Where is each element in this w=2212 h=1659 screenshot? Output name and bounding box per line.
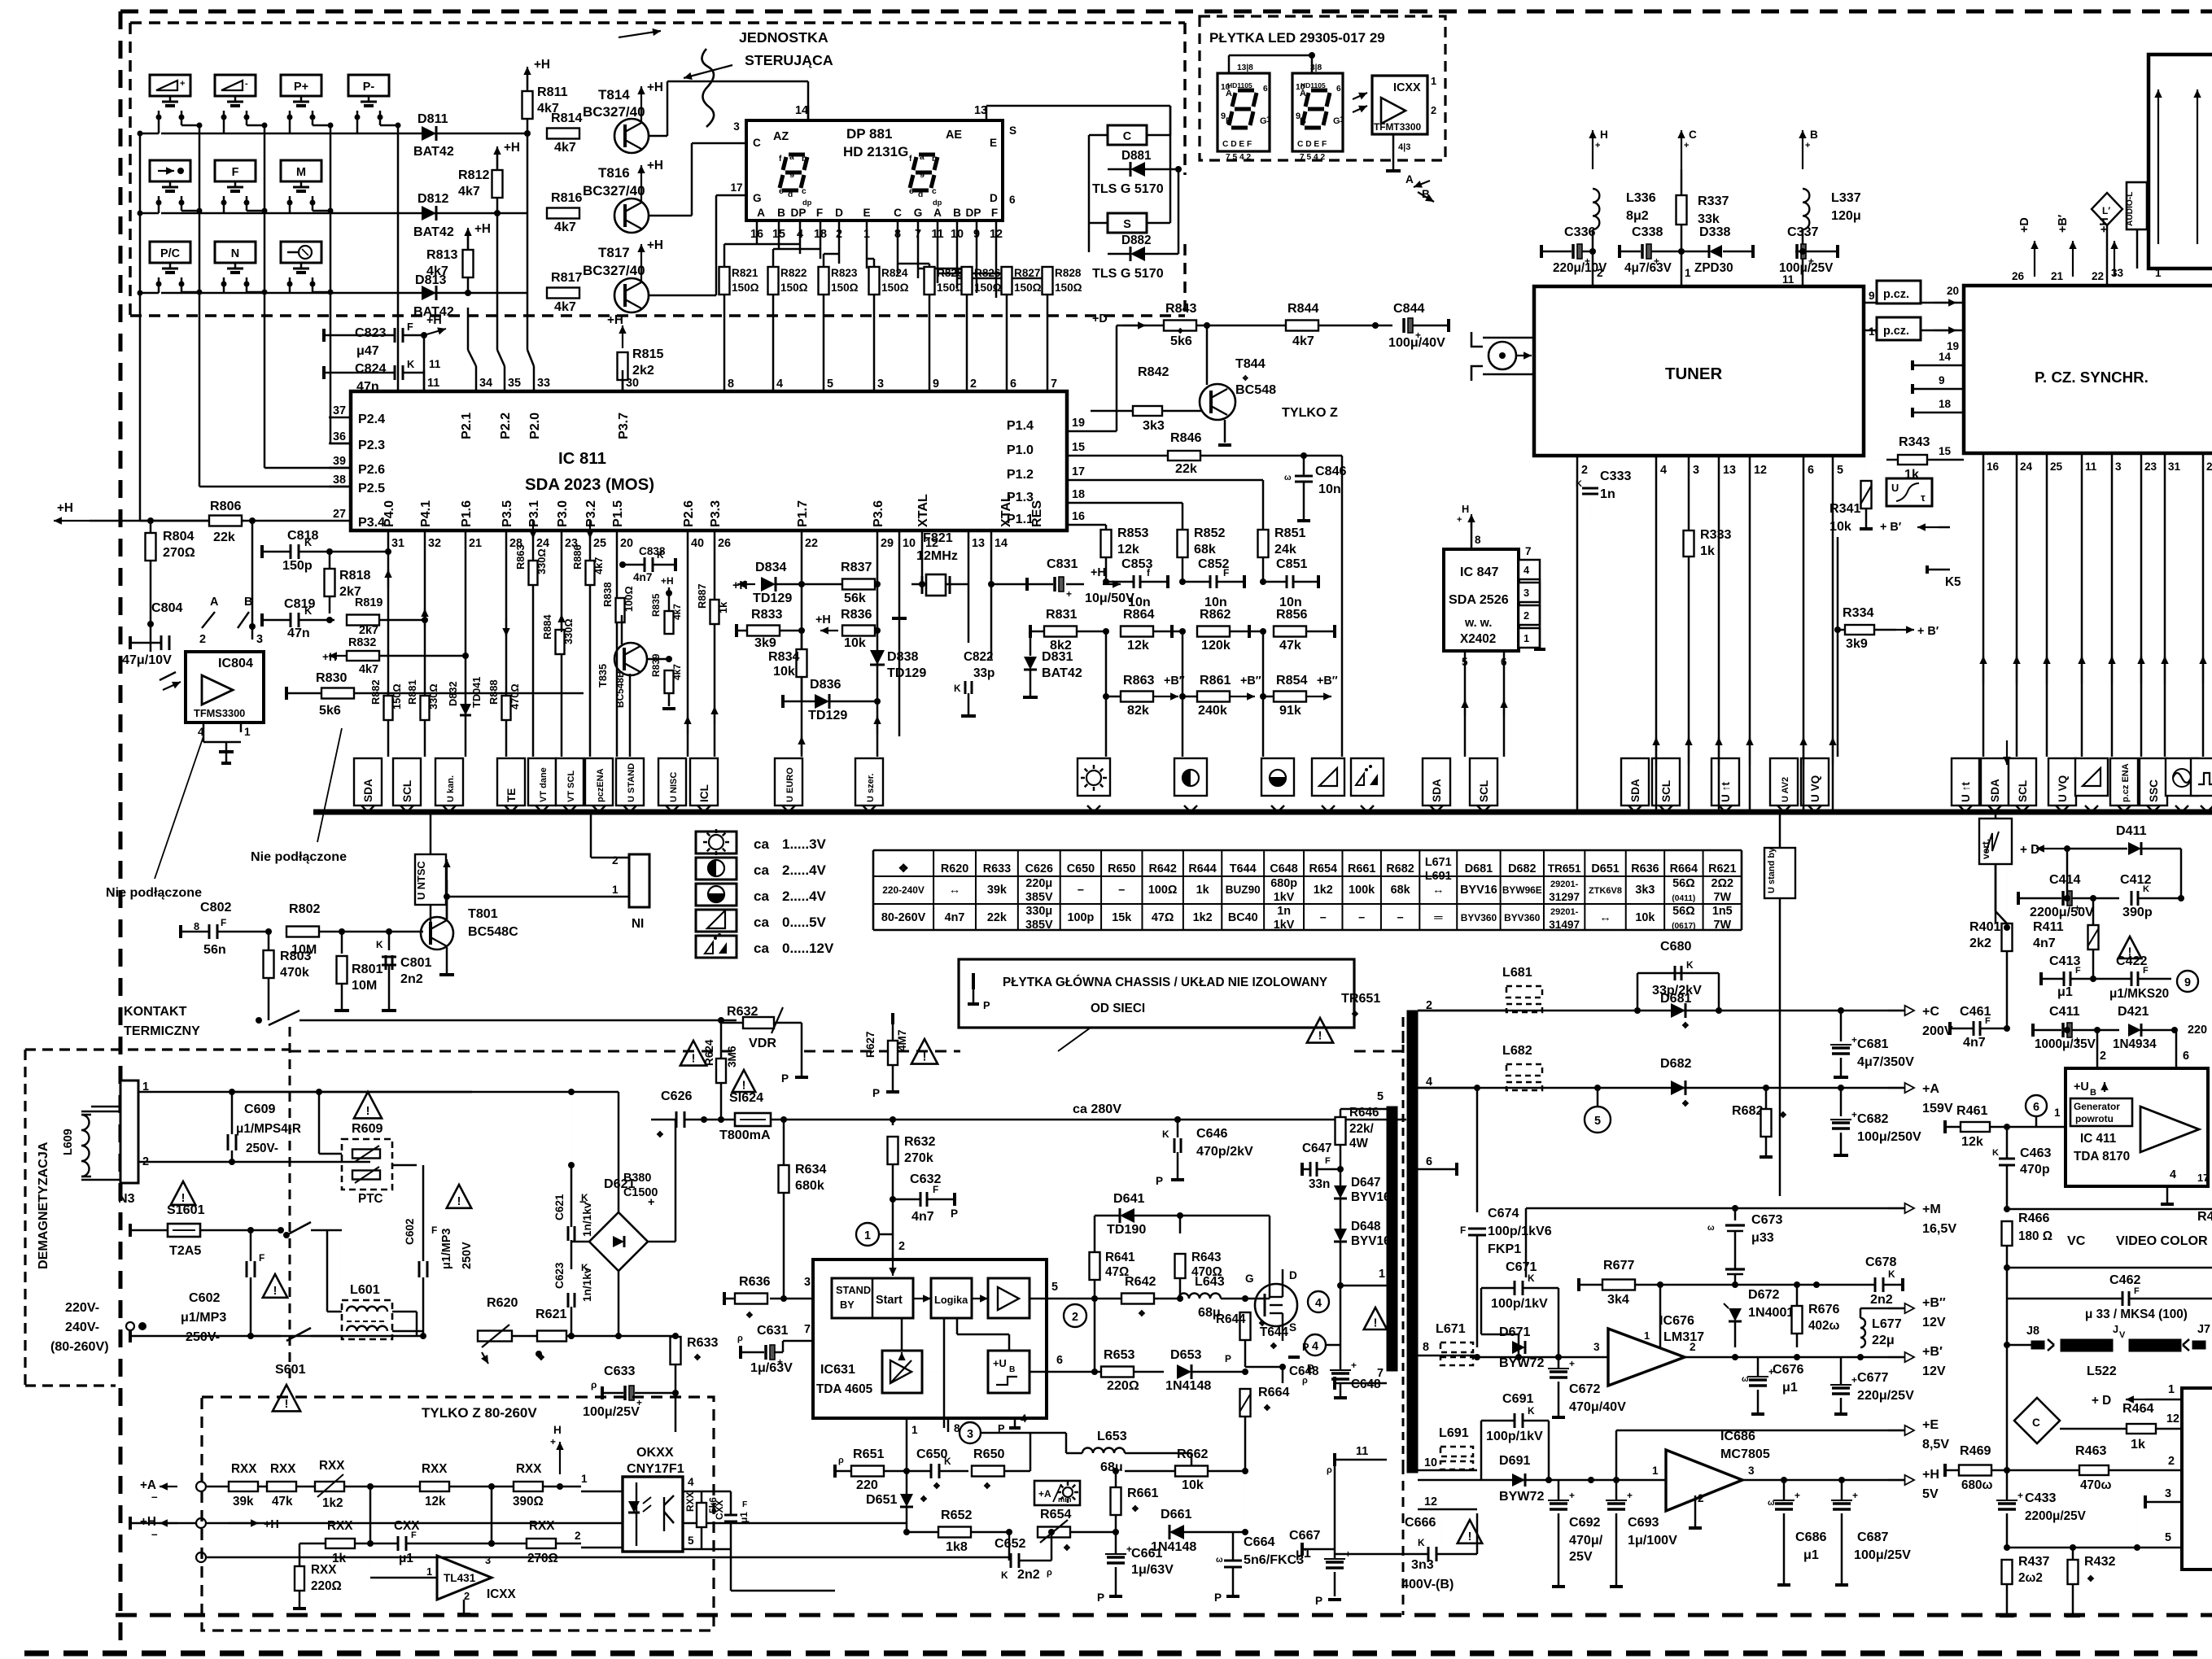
resistor R828 150R	[1043, 267, 1053, 295]
svg-text:8,5V: 8,5V	[1922, 1437, 1949, 1452]
switch under M	[300, 181, 303, 187]
svg-text:R854: R854	[1276, 673, 1308, 688]
TL431 wires	[370, 1577, 437, 1579]
wire left rail to pin27	[139, 293, 142, 521]
svg-text:150Ω: 150Ω	[974, 282, 1002, 294]
resistor R621	[537, 1331, 566, 1342]
svg-text:Generator: Generator	[2074, 1101, 2120, 1112]
svg-text:AZ: AZ	[773, 130, 789, 143]
svg-text:220μ: 220μ	[1025, 877, 1052, 890]
svg-text:470p: 470p	[2020, 1162, 2050, 1177]
ic IC847 box	[1444, 549, 1519, 651]
+H arrow R812	[496, 146, 498, 167]
svg-text:K: K	[2143, 884, 2149, 894]
svg-text:μ1/MKS20: μ1/MKS20	[2109, 987, 2169, 1001]
svg-text:R819: R819	[355, 596, 383, 609]
svg-text:μ1: μ1	[2057, 984, 2073, 999]
svg-text:ca: ca	[754, 836, 769, 852]
svg-text:33p: 33p	[973, 666, 995, 680]
main 280V rail	[780, 1116, 787, 1123]
svg-text:C: C	[894, 207, 902, 219]
pcz synchr box	[1964, 286, 2212, 453]
ic IC811 SDA2023 box	[351, 391, 1067, 530]
svg-text:21: 21	[2051, 270, 2064, 282]
svg-text:F821: F821	[923, 530, 953, 545]
svg-text:10: 10	[1424, 1456, 1437, 1469]
svg-text:15k: 15k	[1112, 911, 1132, 924]
svg-text:+H: +H	[264, 1518, 279, 1531]
resistor R863	[1121, 692, 1153, 702]
resistor R803	[268, 932, 270, 950]
svg-text:R661: R661	[1348, 862, 1375, 875]
svg-text:1kV: 1kV	[1274, 919, 1295, 932]
svg-text:36: 36	[333, 430, 346, 443]
svg-text:(0617): (0617)	[1672, 922, 1695, 931]
svg-text:R814: R814	[551, 111, 583, 125]
svg-text:38: 38	[333, 474, 346, 487]
svg-text:2Ω2: 2Ω2	[1711, 877, 1734, 890]
svg-text:R832: R832	[348, 636, 376, 649]
svg-text:+M: +M	[1922, 1202, 1941, 1216]
demagnetyzacja dashed box	[25, 1048, 290, 1050]
wires drop to bus right	[2006, 456, 2008, 460]
tag p.cz ENA at 2610	[2110, 758, 2138, 805]
svg-text:10k: 10k	[1635, 911, 1655, 924]
svg-text:f: f	[909, 155, 912, 164]
jednostka sterujaca dashed box	[130, 21, 1185, 24]
svg-text:K: K	[1001, 1570, 1008, 1581]
svg-text:BYW72: BYW72	[1499, 1356, 1544, 1370]
transformer winding bar right	[1407, 1011, 1418, 1473]
svg-text:BY: BY	[840, 1299, 855, 1311]
svg-text:100Ω: 100Ω	[1148, 884, 1178, 897]
svg-text:1.....3V: 1.....3V	[782, 836, 827, 852]
svg-text:C846: C846	[1315, 464, 1347, 478]
svg-text:BC40: BC40	[1228, 911, 1258, 924]
svg-text:39: 39	[333, 455, 346, 468]
svg-text:+: +	[1569, 1490, 1575, 1501]
svg-text:3: 3	[485, 1554, 491, 1566]
svg-text:C667: C667	[1289, 1528, 1321, 1543]
svg-text:4: 4	[1660, 464, 1667, 477]
svg-text:C674: C674	[1488, 1206, 1519, 1220]
svg-text:P: P	[951, 1207, 958, 1220]
svg-text:390Ω: 390Ω	[513, 1495, 544, 1508]
svg-text:4: 4	[1312, 1340, 1318, 1353]
svg-text:1n5: 1n5	[1712, 905, 1733, 918]
svg-text:5: 5	[1377, 1090, 1384, 1103]
button F	[215, 160, 256, 181]
IC631 error amp box	[882, 1351, 922, 1393]
svg-text:R887: R887	[696, 583, 708, 609]
svg-text:K: K	[304, 536, 313, 548]
svg-text:A: A	[933, 207, 942, 219]
svg-text:R620: R620	[487, 1295, 518, 1310]
svg-text:100μ/25V: 100μ/25V	[583, 1404, 640, 1419]
svg-text:BC327/40: BC327/40	[583, 263, 645, 278]
T835 emitter	[629, 674, 632, 757]
T835 collector	[621, 615, 623, 644]
wire col N to pin39	[264, 125, 266, 468]
svg-text:4n7: 4n7	[2033, 936, 2056, 950]
svg-text:4k7: 4k7	[359, 663, 378, 676]
wire rows to DP881	[527, 133, 545, 134]
svg-text:R833: R833	[751, 607, 783, 622]
resistor R632b 270k	[892, 1120, 894, 1125]
svg-text:DP: DP	[966, 207, 981, 219]
svg-text:τ: τ	[1921, 491, 1926, 504]
diode D838	[870, 650, 885, 665]
svg-text:R341: R341	[1829, 501, 1861, 516]
button P/C	[150, 242, 190, 263]
svg-text:p.cz.: p.cz.	[1883, 288, 1909, 301]
svg-text:47n: 47n	[287, 626, 310, 640]
svg-text:9: 9	[933, 378, 939, 391]
svg-text:10M: 10M	[352, 978, 377, 993]
svg-text:C693: C693	[1628, 1515, 1659, 1530]
svg-text:56k: 56k	[844, 591, 866, 605]
svg-text:–: –	[1078, 884, 1084, 897]
resistor R653	[1101, 1367, 1134, 1377]
svg-text:C682: C682	[1857, 1111, 1889, 1126]
IC631 inner wires	[913, 1298, 931, 1299]
svg-text:5: 5	[2165, 1531, 2171, 1544]
wire vert to R401	[1995, 864, 1997, 911]
rail +B2	[1888, 1308, 1914, 1309]
svg-text:SCL: SCL	[1478, 780, 1490, 802]
svg-text:BYW72: BYW72	[1499, 1489, 1544, 1504]
svg-text:+: +	[2017, 1490, 2023, 1501]
resistor R636	[735, 1294, 767, 1304]
resistor R651	[851, 1466, 884, 1477]
svg-text:TFMS3300: TFMS3300	[194, 707, 245, 719]
svg-text:1: 1	[911, 1424, 918, 1436]
svg-text:BYV16: BYV16	[1351, 1190, 1390, 1204]
transistor T844	[1200, 384, 1235, 420]
svg-text:R856: R856	[1276, 607, 1308, 622]
svg-text:L671: L671	[1425, 856, 1452, 869]
svg-text:C338: C338	[1632, 225, 1663, 239]
svg-text:20: 20	[620, 537, 633, 550]
svg-text:U EURO: U EURO	[785, 767, 795, 802]
IC631 pin2 wire	[892, 1245, 894, 1260]
tag U szer. at 1068	[855, 758, 883, 805]
svg-text:25: 25	[593, 537, 606, 550]
svg-text:RXX: RXX	[327, 1519, 353, 1533]
svg-text:1μ/63V: 1μ/63V	[750, 1360, 793, 1375]
svg-text:R861: R861	[1200, 673, 1231, 688]
svg-text:470ω: 470ω	[2080, 1478, 2112, 1492]
tag SDA at 1765	[1423, 758, 1450, 805]
svg-text:TUNER: TUNER	[1665, 365, 1723, 383]
tag TE at 628	[497, 758, 525, 805]
svg-text:N3: N3	[118, 1191, 135, 1206]
svg-text:ω: ω	[1707, 1224, 1715, 1233]
svg-text:❖: ❖	[983, 1482, 991, 1491]
wire long left lines	[196, 1518, 206, 1528]
junction row3	[465, 290, 471, 296]
svg-text:P1.4: P1.4	[1007, 418, 1034, 433]
svg-text:R818: R818	[339, 568, 371, 583]
resistor R334	[1845, 625, 1874, 635]
warning triangle right	[2118, 936, 2142, 958]
svg-text:IC804: IC804	[218, 656, 253, 670]
transformer pin5 wire	[1340, 1108, 1387, 1111]
svg-text:C433: C433	[2025, 1491, 2057, 1505]
wire P1.0 to C846	[1201, 455, 1304, 457]
resistor R884	[556, 630, 565, 654]
svg-text:P3.7: P3.7	[616, 413, 631, 439]
svg-text:JEDNOSTKA: JEDNOSTKA	[739, 29, 828, 46]
svg-text:U NTSC: U NTSC	[415, 861, 427, 900]
resistor R838	[616, 598, 625, 622]
switch S601 bottom	[130, 1335, 281, 1338]
tag VT SCL at 700	[556, 758, 584, 805]
svg-text:7W: 7W	[1713, 891, 1731, 904]
svg-text:7W: 7W	[1713, 919, 1731, 932]
svg-text:F: F	[1223, 567, 1229, 578]
+D arrow left	[2067, 848, 2132, 849]
svg-text:R831: R831	[1046, 607, 1078, 622]
svg-text:1: 1	[2168, 1383, 2175, 1396]
resistor R843	[1164, 321, 1196, 331]
resistor R650	[972, 1466, 1004, 1477]
capacitor C801	[388, 932, 391, 950]
svg-text:47n: 47n	[356, 379, 379, 394]
svg-text:100μ/25V: 100μ/25V	[1854, 1548, 1911, 1562]
svg-text:L337: L337	[1831, 190, 1861, 205]
svg-text:R811: R811	[537, 85, 568, 99]
svg-text:B: B	[1226, 116, 1232, 126]
svg-text:6: 6	[1336, 85, 1341, 94]
svg-text:TERMICZNY: TERMICZNY	[124, 1024, 200, 1038]
resistor R888	[502, 696, 511, 720]
svg-text:F: F	[991, 207, 998, 219]
R815 wire to pin30	[622, 379, 624, 391]
arrow to jednostka	[684, 65, 732, 78]
svg-text:16,5V: 16,5V	[1922, 1221, 1956, 1236]
svg-text:TYLKO Z 80-260V: TYLKO Z 80-260V	[422, 1405, 537, 1421]
svg-text:BYV16: BYV16	[1460, 884, 1497, 897]
svg-text:K: K	[1686, 959, 1694, 971]
bridge rectifier B380	[589, 1212, 648, 1271]
svg-text:❖: ❖	[1131, 1504, 1139, 1514]
svg-text:TLS G 5170: TLS G 5170	[1092, 181, 1164, 196]
svg-text:270Ω: 270Ω	[163, 545, 195, 560]
svg-text:330Ω: 330Ω	[562, 618, 575, 644]
T814 collector wire	[649, 135, 667, 138]
svg-text:1: 1	[1431, 75, 1436, 87]
svg-text:C D E F: C D E F	[1222, 140, 1252, 149]
svg-text:5: 5	[688, 1535, 694, 1547]
svg-text:F: F	[816, 207, 823, 219]
resistor R802	[286, 927, 319, 937]
transistor T835	[614, 643, 647, 675]
svg-text:❖: ❖	[933, 1482, 941, 1491]
svg-text:D832: D832	[447, 681, 459, 706]
resistor R853	[1101, 530, 1112, 557]
svg-text:+: +	[1569, 1358, 1575, 1369]
icon tag at 2712	[2191, 758, 2212, 796]
resistor R469	[1959, 1465, 1991, 1476]
svg-text:D: D	[990, 192, 998, 204]
capacitor C682	[1838, 1085, 1844, 1091]
svg-text:R654: R654	[1309, 862, 1337, 875]
connector N3	[120, 1081, 138, 1183]
svg-text:C673: C673	[1751, 1212, 1783, 1227]
resistor R677	[1602, 1280, 1635, 1290]
wire N	[223, 284, 225, 293]
wire M	[289, 203, 291, 213]
L601 wires	[340, 1229, 342, 1232]
resistor R801	[341, 932, 343, 954]
svg-text:R815: R815	[632, 347, 664, 361]
svg-text:T835: T835	[597, 664, 609, 688]
svg-text:3: 3	[967, 1428, 973, 1441]
svg-text:R654: R654	[1040, 1507, 1072, 1521]
+H arrow R813	[467, 228, 469, 248]
resistor R825 150R	[925, 267, 935, 295]
junction row2	[494, 210, 501, 216]
svg-text:F: F	[1460, 1225, 1466, 1236]
svg-text:24: 24	[2020, 461, 2033, 473]
long vertical drops left of table	[1436, 651, 1437, 757]
resistor R633	[675, 1336, 676, 1351]
svg-text:P2.2: P2.2	[498, 413, 513, 439]
legend icon 2	[696, 884, 737, 906]
svg-text:❖: ❖	[2087, 1574, 2095, 1584]
svg-text:C621: C621	[553, 1194, 566, 1220]
svg-text:ICXX: ICXX	[487, 1587, 516, 1601]
svg-text:150Ω: 150Ω	[391, 683, 403, 709]
svg-text:TFMT3300: TFMT3300	[1374, 121, 1422, 133]
resistor R856	[1274, 626, 1306, 637]
wire R828 to pin 7	[1047, 295, 1049, 391]
svg-text:L681: L681	[1502, 965, 1532, 980]
+A min box	[1034, 1481, 1080, 1505]
svg-text:+C: +C	[1922, 1004, 1939, 1019]
IC631 amp box	[988, 1278, 1029, 1318]
svg-text:C336: C336	[1564, 225, 1596, 239]
svg-text:F: F	[1325, 1156, 1331, 1166]
svg-text:D: D	[835, 207, 843, 219]
tag U VQ at 2534	[2048, 758, 2076, 805]
svg-text:10k: 10k	[844, 635, 866, 650]
svg-text:R632: R632	[904, 1134, 936, 1149]
svg-text:ρ: ρ	[591, 1379, 597, 1391]
svg-text:!: !	[1374, 1316, 1378, 1329]
svg-text:150Ω: 150Ω	[732, 282, 759, 294]
svg-text:4: 4	[776, 378, 783, 391]
svg-text:8: 8	[1423, 1341, 1429, 1354]
video color band	[2007, 1208, 2212, 1211]
svg-text:HD1105: HD1105	[1227, 81, 1252, 89]
svg-text:RES: RES	[1029, 500, 1044, 527]
svg-text:1: 1	[1685, 267, 1691, 279]
transformer pin1 wire	[1340, 1285, 1387, 1287]
svg-text:3: 3	[1523, 587, 1529, 599]
svg-text:22k: 22k	[1175, 461, 1197, 476]
switch S601 top	[278, 1227, 284, 1233]
svg-text:R662: R662	[1177, 1447, 1209, 1461]
icon tag at 1463	[1174, 758, 1207, 796]
svg-text:R463: R463	[2075, 1443, 2107, 1458]
svg-text:3M6: 3M6	[726, 1046, 738, 1067]
svg-text:330Ω: 330Ω	[536, 548, 548, 574]
svg-text:L609: L609	[62, 1129, 75, 1155]
svg-text:TE: TE	[505, 788, 518, 802]
transformer pin7 wire	[1335, 1382, 1387, 1385]
svg-text:R837: R837	[841, 560, 872, 574]
svg-text:4k7: 4k7	[554, 140, 576, 155]
resistor R831	[1044, 626, 1077, 637]
icon tag at 1632	[1312, 758, 1344, 796]
svg-text:OD SIECI: OD SIECI	[1091, 1002, 1145, 1015]
svg-text:R664: R664	[1670, 862, 1698, 875]
svg-text:680p: 680p	[1270, 877, 1297, 890]
resistor R337	[1681, 169, 1683, 195]
svg-text:+: +	[1795, 1490, 1800, 1501]
svg-text:A: A	[210, 596, 219, 609]
svg-text:P1.5: P1.5	[610, 500, 625, 527]
switch under volp	[169, 96, 172, 102]
svg-text:3k4: 3k4	[1607, 1292, 1629, 1307]
svg-text:ω: ω	[1216, 1556, 1223, 1565]
svg-text:D682: D682	[1660, 1056, 1692, 1071]
svg-text:+H: +H	[322, 651, 337, 663]
svg-text:SDA: SDA	[1431, 779, 1443, 802]
svg-text:↔: ↔	[949, 884, 960, 897]
svg-text:+: +	[1457, 515, 1462, 525]
svg-text:AE: AE	[946, 129, 962, 142]
svg-text:R802: R802	[289, 902, 321, 916]
svg-text:b: b	[802, 155, 807, 164]
wire row3 junction to pin34	[467, 293, 469, 350]
svg-text:D682: D682	[1508, 862, 1536, 875]
capacitor C681	[1838, 1007, 1844, 1014]
svg-text:❖: ❖	[1779, 1111, 1787, 1120]
resistor R852	[1178, 530, 1188, 557]
resistor RXX8 270	[527, 1539, 556, 1548]
svg-text:4M7: 4M7	[896, 1030, 908, 1051]
svg-text:9: 9	[1869, 290, 1875, 302]
outer dashed border top	[120, 10, 2212, 14]
svg-text:K: K	[1528, 1273, 1535, 1284]
capacitor C661	[1107, 1556, 1125, 1559]
svg-text:120k: 120k	[1201, 638, 1231, 653]
svg-text:C650: C650	[1067, 862, 1095, 875]
transistor T817	[614, 278, 649, 312]
tuner box	[1534, 286, 1864, 456]
svg-text:14: 14	[795, 104, 808, 117]
svg-text:4: 4	[688, 1476, 694, 1488]
svg-text:3k3: 3k3	[1143, 418, 1165, 433]
svg-text:!: !	[1318, 1029, 1322, 1042]
resistor R662	[1175, 1466, 1208, 1477]
svg-text:33: 33	[2111, 267, 2124, 279]
tag U AV2 at 2192	[1770, 758, 1798, 805]
svg-text:32: 32	[428, 537, 441, 550]
svg-text:1k2: 1k2	[1314, 884, 1333, 897]
svg-text:10: 10	[903, 537, 916, 550]
svg-text:2: 2	[1581, 464, 1588, 477]
tag VT dane at 666	[528, 758, 556, 805]
switch under F	[234, 181, 237, 187]
transformer pin4 wire	[1418, 1087, 1477, 1089]
svg-text:T801: T801	[468, 906, 498, 921]
svg-text:3: 3	[804, 1276, 811, 1289]
svg-text:C851: C851	[1276, 557, 1308, 571]
